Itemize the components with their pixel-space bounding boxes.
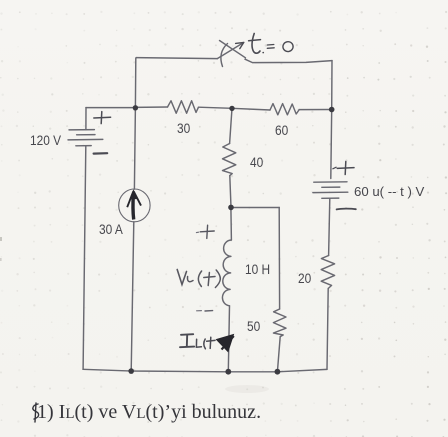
label 20 (resistor) — [298, 270, 311, 286]
wire node D down to inductor — [230, 208, 233, 241]
resistor R 40 — [223, 144, 236, 176]
plus sign battery B1 — [94, 116, 111, 119]
wire top-left horizontal (battery to node A) — [86, 107, 135, 109]
inductor L 10H coil — [222, 240, 231, 306]
label 40 (resistor) — [250, 154, 263, 170]
label 60 (resistor) — [275, 122, 288, 138]
label 30 A (current source) — [99, 221, 123, 237]
node A dot — [133, 105, 138, 110]
wire current-source branch upper — [134, 108, 135, 190]
wire node D right — [231, 207, 279, 209]
battery B2 plates — [314, 181, 347, 183]
wire top horizontal to switch — [137, 58, 218, 59]
label 50 (resistor) — [247, 318, 260, 334]
resistor R 50 — [273, 309, 286, 337]
switch blade arrowhead — [236, 42, 244, 48]
wire resistor 50 to bottom node — [277, 337, 280, 372]
plus sign battery B2 — [337, 167, 354, 170]
current arrow IL bold arrowhead — [217, 335, 234, 352]
label 120 V — [30, 132, 61, 148]
bottom problem text — [37, 402, 261, 423]
wire resistor 60 to node C — [299, 109, 332, 111]
wire battery B1 top lead — [85, 108, 87, 130]
bottom node dot 1 — [128, 368, 134, 374]
wire right inner branch down to resistor 50 — [278, 208, 280, 310]
plus sign VL polarity — [200, 230, 214, 233]
node D dot — [228, 205, 234, 211]
wire middle branch node B down to resistor 40 — [230, 108, 232, 143]
leading squiggle glyph — [29, 402, 45, 428]
bottom node dot 3 — [275, 369, 281, 375]
wire right drop to node C — [331, 61, 333, 110]
resistor R 20 — [321, 256, 334, 289]
current source I1 circle — [119, 189, 150, 222]
wire node A to resistor 30 — [135, 106, 168, 108]
wire resistor 40 to node D — [230, 176, 231, 208]
wire node B to resistor 60 — [232, 108, 270, 110]
minus sign battery B1 — [94, 152, 108, 155]
handwritten VL(t) label — [177, 270, 186, 285]
battery B1 plates — [69, 129, 94, 131]
bottom node dot 2 — [225, 369, 231, 375]
wire resistor 30 to node B — [199, 107, 233, 108]
switch label = — [267, 44, 274, 47]
wire left branch vertical — [83, 147, 86, 370]
switch label t=0 handwritten t — [252, 34, 260, 54]
wire inductor to bottom node — [228, 306, 229, 372]
minus sign VL polarity — [197, 310, 202, 312]
wire resistor 20 to bottom-right corner — [327, 289, 328, 370]
handwritten IL(t) label — [181, 333, 193, 336]
switch label 0 — [282, 41, 294, 53]
current source I1 bold up arrow — [127, 191, 141, 220]
wire battery 60u down to resistor 20 — [329, 198, 330, 255]
wire bottom horizontal — [83, 369, 327, 372]
switch cross stroke — [220, 41, 246, 58]
switch blade t=0 — [217, 43, 243, 59]
node C dot — [329, 107, 335, 113]
switch arc — [221, 44, 228, 67]
node B dot — [229, 106, 234, 111]
riser wire node A up — [135, 58, 136, 108]
resistor R 30 — [168, 101, 199, 113]
label 60 u(-t) V (battery B2) — [354, 184, 424, 199]
wire switch to top-right corner — [245, 59, 332, 62]
wire node C down to battery 60u — [330, 110, 333, 179]
wire current-source branch lower — [131, 222, 134, 371]
resistor R 60 — [270, 104, 299, 115]
label 10 H (inductor) — [245, 261, 270, 277]
minus sign battery B2 — [337, 208, 356, 211]
label 30 (resistor) — [177, 120, 190, 136]
